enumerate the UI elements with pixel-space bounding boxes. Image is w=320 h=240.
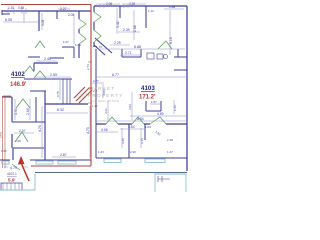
svg-text:1.47: 1.47 bbox=[167, 150, 173, 154]
svg-text:3.54: 3.54 bbox=[128, 125, 135, 129]
svg-text:2.18: 2.18 bbox=[167, 138, 173, 142]
svg-text:2.68: 2.68 bbox=[133, 25, 137, 32]
wall bottom left window band bbox=[0, 159, 91, 161]
svg-text:2.08: 2.08 bbox=[106, 2, 112, 6]
svg-text:ALL REAL ESTATE: ALL REAL ESTATE bbox=[91, 99, 119, 103]
wall right exterior bbox=[186, 6, 188, 171]
svg-text:PROPERTY: PROPERTY bbox=[88, 93, 124, 98]
dim 2.07 bbox=[14, 132, 34, 134]
svg-text:3.15: 3.15 bbox=[140, 138, 144, 144]
door corridor bottom 2 bbox=[132, 117, 144, 124]
door 4103 entry 2 bbox=[94, 30, 101, 42]
dim 2.87 line bbox=[52, 156, 76, 158]
dim 4.89 line bbox=[130, 115, 186, 117]
door corridor bottom 1 bbox=[106, 117, 118, 124]
svg-text:3.42: 3.42 bbox=[116, 21, 120, 28]
wall top right unit bbox=[94, 5, 187, 7]
red line bottom bbox=[31, 165, 91, 167]
dim 6.19 vertical bbox=[169, 10, 171, 55]
dim 6.05 line bbox=[3, 12, 39, 22]
wall y124 corridor bottom bbox=[96, 123, 187, 125]
wall corridor x79 bbox=[78, 11, 80, 58]
wall y63 bbox=[34, 62, 58, 64]
door corridor 1 bbox=[79, 19, 86, 29]
svg-text:3.51: 3.51 bbox=[14, 108, 18, 115]
door corridor 2 bbox=[79, 33, 86, 44]
svg-text:4.06: 4.06 bbox=[101, 128, 108, 132]
teal windows and balconies bbox=[0, 159, 186, 192]
dim 2.39 bbox=[118, 31, 140, 33]
dim 2.64 vertical bbox=[29, 99, 31, 120]
red line top bbox=[1, 4, 91, 6]
svg-text:4102.1: 4102.1 bbox=[7, 172, 17, 176]
svg-text:2.64: 2.64 bbox=[26, 108, 30, 115]
wall x12 bbox=[12, 97, 13, 160]
dim 3.21 vertical bbox=[107, 100, 109, 120]
dim 4.79 line bbox=[4, 166, 28, 168]
dim 6.88 line bbox=[98, 48, 185, 50]
stair hatch bottom left bbox=[3, 183, 19, 190]
svg-text:1.73: 1.73 bbox=[96, 45, 102, 49]
wall bath right bbox=[174, 49, 187, 70]
svg-text:0.98: 0.98 bbox=[1, 149, 7, 153]
svg-text:1.03: 1.03 bbox=[75, 43, 81, 47]
dim 2.27 bbox=[58, 8, 70, 10]
door left room 1 bbox=[16, 99, 30, 108]
svg-text:4.74: 4.74 bbox=[38, 125, 42, 132]
wall left stub top bbox=[2, 10, 10, 15]
svg-text:4.03: 4.03 bbox=[128, 104, 132, 110]
wall x96 lower bbox=[95, 124, 97, 158]
door left room 2 bbox=[15, 132, 28, 142]
dim 3.42 vertical bbox=[116, 8, 118, 34]
door top middle bbox=[35, 41, 45, 48]
wall y57 small bbox=[28, 56, 40, 58]
red small texts bbox=[0, 89, 98, 183]
red corner left bbox=[3, 95, 11, 97]
door small right bbox=[158, 41, 172, 49]
door pair A bbox=[25, 66, 34, 72]
wall y46 small bbox=[50, 47, 74, 58]
dim 6.03 vertical bbox=[102, 84, 104, 98]
dim 2.08 top right bbox=[96, 3, 120, 5]
svg-text:6.88: 6.88 bbox=[134, 45, 141, 49]
balcony bottom right bbox=[155, 174, 186, 192]
window left bottom 2 bbox=[58, 161, 76, 164]
svg-text:8.77: 8.77 bbox=[112, 73, 119, 77]
svg-text:0.75: 0.75 bbox=[56, 91, 60, 97]
dim 0.88 top bbox=[164, 8, 184, 10]
svg-text:4103: 4103 bbox=[141, 85, 155, 92]
wall y148 bbox=[13, 147, 44, 149]
dim 2.71 bbox=[120, 54, 140, 56]
svg-text:4102: 4102 bbox=[11, 71, 25, 78]
watermark bbox=[88, 86, 124, 103]
shaft lines bbox=[63, 79, 70, 104]
svg-text:1.57: 1.57 bbox=[151, 100, 157, 104]
svg-text:6.19: 6.19 bbox=[169, 37, 173, 44]
svg-text:2.30: 2.30 bbox=[130, 150, 136, 154]
dim 8.84 line bbox=[96, 120, 186, 122]
svg-text:0.85: 0.85 bbox=[18, 6, 24, 10]
red arrow bbox=[18, 156, 29, 181]
svg-text:3.39: 3.39 bbox=[129, 2, 135, 6]
svg-text:8.84: 8.84 bbox=[137, 117, 144, 121]
door 4103 entry 1 bbox=[94, 12, 101, 22]
dim 4.73 vertical bbox=[89, 106, 91, 158]
dim 8.32 line bbox=[46, 112, 88, 114]
svg-text:2.3: 2.3 bbox=[93, 89, 97, 93]
window ticks top right bbox=[100, 4, 128, 8]
svg-text:3.25: 3.25 bbox=[121, 138, 125, 144]
window right bottom bbox=[145, 159, 165, 163]
dim verticals lower right bbox=[122, 128, 141, 148]
balcony bottom left bbox=[0, 174, 35, 190]
svg-text:146.9': 146.9' bbox=[10, 82, 27, 88]
svg-text:1.12: 1.12 bbox=[92, 104, 98, 108]
dim 3.51 vertical bbox=[14, 99, 16, 120]
svg-text:24.6': 24.6' bbox=[0, 131, 3, 138]
window mid bottom bbox=[104, 159, 121, 163]
wall y122 bbox=[12, 121, 45, 123]
svg-text:2.40: 2.40 bbox=[44, 57, 51, 61]
balcony right marks bbox=[158, 176, 170, 182]
svg-text:2.05: 2.05 bbox=[68, 13, 74, 17]
svg-text:1.15: 1.15 bbox=[8, 6, 14, 10]
dim 1.57 closet bbox=[150, 103, 162, 105]
svg-text:3.21: 3.21 bbox=[104, 108, 108, 114]
dimension texts bbox=[1, 2, 177, 176]
wall vertical B x57 bbox=[56, 11, 58, 19]
svg-text:6.05: 6.05 bbox=[5, 18, 12, 22]
svg-text:4.73: 4.73 bbox=[86, 127, 90, 134]
wall y91 small bbox=[30, 90, 46, 92]
wall closet right bbox=[146, 101, 161, 111]
dim 4.06 bbox=[96, 131, 118, 133]
dim window top marks bbox=[8, 8, 26, 14]
door pair B bbox=[34, 71, 46, 78]
wall y104 living top bbox=[45, 103, 88, 105]
svg-text:1.12: 1.12 bbox=[148, 9, 154, 13]
dim 0.75 vertical shaft bbox=[59, 80, 61, 100]
fixture circle bbox=[164, 55, 168, 59]
svg-text:2.77: 2.77 bbox=[93, 79, 99, 83]
wall x145 lower bbox=[144, 124, 146, 140]
dim 2.59 bbox=[35, 76, 71, 78]
svg-text:2.46: 2.46 bbox=[173, 105, 177, 111]
wall x45 living left bbox=[44, 91, 46, 160]
dim 3.39 top bbox=[122, 3, 146, 5]
dim 2.77 line bbox=[92, 82, 104, 84]
dim 2.46 vertical bbox=[173, 100, 175, 114]
svg-text:2.29: 2.29 bbox=[114, 41, 121, 45]
svg-text:2.39: 2.39 bbox=[123, 28, 130, 32]
dim 3.54 bbox=[120, 128, 144, 130]
red property lines bbox=[1, 5, 92, 169]
red line left double bbox=[3, 96, 6, 168]
svg-text:1.07: 1.07 bbox=[63, 40, 69, 44]
svg-text:171.2': 171.2' bbox=[139, 95, 156, 101]
wall y97 left bbox=[2, 96, 12, 98]
wall x129 lower bbox=[128, 124, 130, 158]
svg-text:3.08: 3.08 bbox=[41, 20, 45, 26]
window left bottom 1 bbox=[36, 161, 53, 164]
red stair diagonals bbox=[74, 87, 92, 103]
svg-text:8.32: 8.32 bbox=[57, 108, 64, 112]
wall bath x122 y57 bbox=[122, 49, 141, 57]
wall left of unit 4103 bbox=[93, 6, 95, 47]
svg-text:2.73: 2.73 bbox=[86, 64, 90, 70]
dim 8.77 line bbox=[96, 76, 186, 78]
svg-text:1.03: 1.03 bbox=[145, 125, 151, 129]
bottom terrace line bbox=[35, 172, 187, 174]
svg-text:5.9': 5.9' bbox=[8, 178, 15, 183]
wall x36 small rooms bbox=[35, 97, 37, 122]
wall top left unit bbox=[2, 10, 91, 12]
dim corridor vertical bbox=[73, 14, 75, 44]
wall y79 bbox=[24, 78, 72, 80]
red line right vertical bbox=[90, 5, 92, 167]
dim 2.68 vertical bbox=[133, 10, 135, 40]
dim 4.03 vertical bbox=[131, 92, 133, 120]
red ticks near boundary bbox=[88, 62, 92, 103]
wall diagonal corridor bbox=[94, 38, 112, 55]
door left lower bbox=[12, 164, 20, 170]
fixtures bath bbox=[147, 53, 154, 59]
door corridor bottom 3 bbox=[150, 117, 166, 124]
svg-text:2.27: 2.27 bbox=[60, 7, 67, 11]
green door swings bbox=[12, 12, 172, 170]
wall bottom right window band bbox=[96, 157, 187, 159]
wall x96 bbox=[95, 49, 97, 124]
svg-text:2.87: 2.87 bbox=[60, 153, 67, 157]
wall x146 bbox=[145, 6, 147, 28]
dim 2.29 bbox=[110, 44, 130, 46]
svg-text:2.71: 2.71 bbox=[125, 51, 132, 55]
dimension thin lines bbox=[3, 4, 186, 167]
svg-text:4.89: 4.89 bbox=[157, 112, 164, 116]
wall x120 bbox=[119, 6, 121, 18]
window far left bbox=[2, 161, 9, 164]
wall vertical A x39 bbox=[38, 11, 40, 31]
dim 4.74 vertical bbox=[41, 106, 43, 158]
unit labels bbox=[10, 71, 156, 101]
wall vertical C x34 bbox=[33, 63, 35, 71]
dim 2.40 bbox=[36, 60, 57, 62]
svg-text:1.23: 1.23 bbox=[98, 150, 104, 154]
svg-text:0.88: 0.88 bbox=[169, 5, 175, 9]
dim 3.08 vertical bbox=[41, 13, 43, 30]
svg-text:2.59: 2.59 bbox=[50, 73, 57, 77]
